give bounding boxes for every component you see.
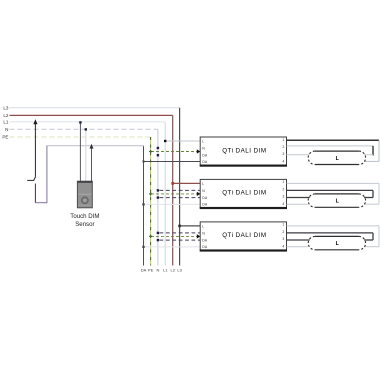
svg-text:L3: L3 <box>3 105 9 110</box>
svg-text:1: 1 <box>282 180 284 184</box>
svg-text:DA: DA <box>202 154 208 158</box>
svg-text:L3: L3 <box>177 268 182 273</box>
svg-text:2: 2 <box>282 230 284 234</box>
svg-text:QTi DALI DIM: QTi DALI DIM <box>222 232 266 239</box>
svg-text:L2: L2 <box>170 268 175 273</box>
svg-text:DA: DA <box>202 239 208 243</box>
svg-text:DA: DA <box>202 245 208 249</box>
svg-text:4: 4 <box>282 202 284 206</box>
svg-text:3: 3 <box>282 152 284 156</box>
svg-text:PE: PE <box>2 135 8 140</box>
svg-text:4: 4 <box>282 244 284 248</box>
svg-text:DA: DA <box>202 196 208 200</box>
svg-text:L: L <box>202 140 204 144</box>
svg-text:L: L <box>202 224 204 228</box>
svg-text:L: L <box>202 182 204 186</box>
svg-text:3: 3 <box>282 237 284 241</box>
svg-text:DA: DA <box>202 160 208 164</box>
svg-text:L2: L2 <box>3 113 9 118</box>
svg-text:1: 1 <box>282 223 284 227</box>
svg-text:N: N <box>156 268 159 273</box>
svg-text:4: 4 <box>282 159 284 163</box>
svg-text:Sensor: Sensor <box>75 221 94 228</box>
svg-text:2: 2 <box>282 187 284 191</box>
svg-text:N: N <box>5 127 8 132</box>
svg-text:PE: PE <box>148 268 154 273</box>
svg-text:QTi DALI DIM: QTi DALI DIM <box>222 147 266 154</box>
svg-text:3: 3 <box>282 195 284 199</box>
svg-text:2: 2 <box>282 145 284 149</box>
svg-text:L1: L1 <box>163 268 168 273</box>
svg-text:L1: L1 <box>3 120 9 125</box>
svg-text:DA: DA <box>202 203 208 207</box>
svg-text:DA: DA <box>141 268 147 273</box>
svg-text:1: 1 <box>282 138 284 142</box>
svg-text:Touch DIM: Touch DIM <box>70 213 99 220</box>
svg-text:QTi DALI DIM: QTi DALI DIM <box>222 190 266 197</box>
